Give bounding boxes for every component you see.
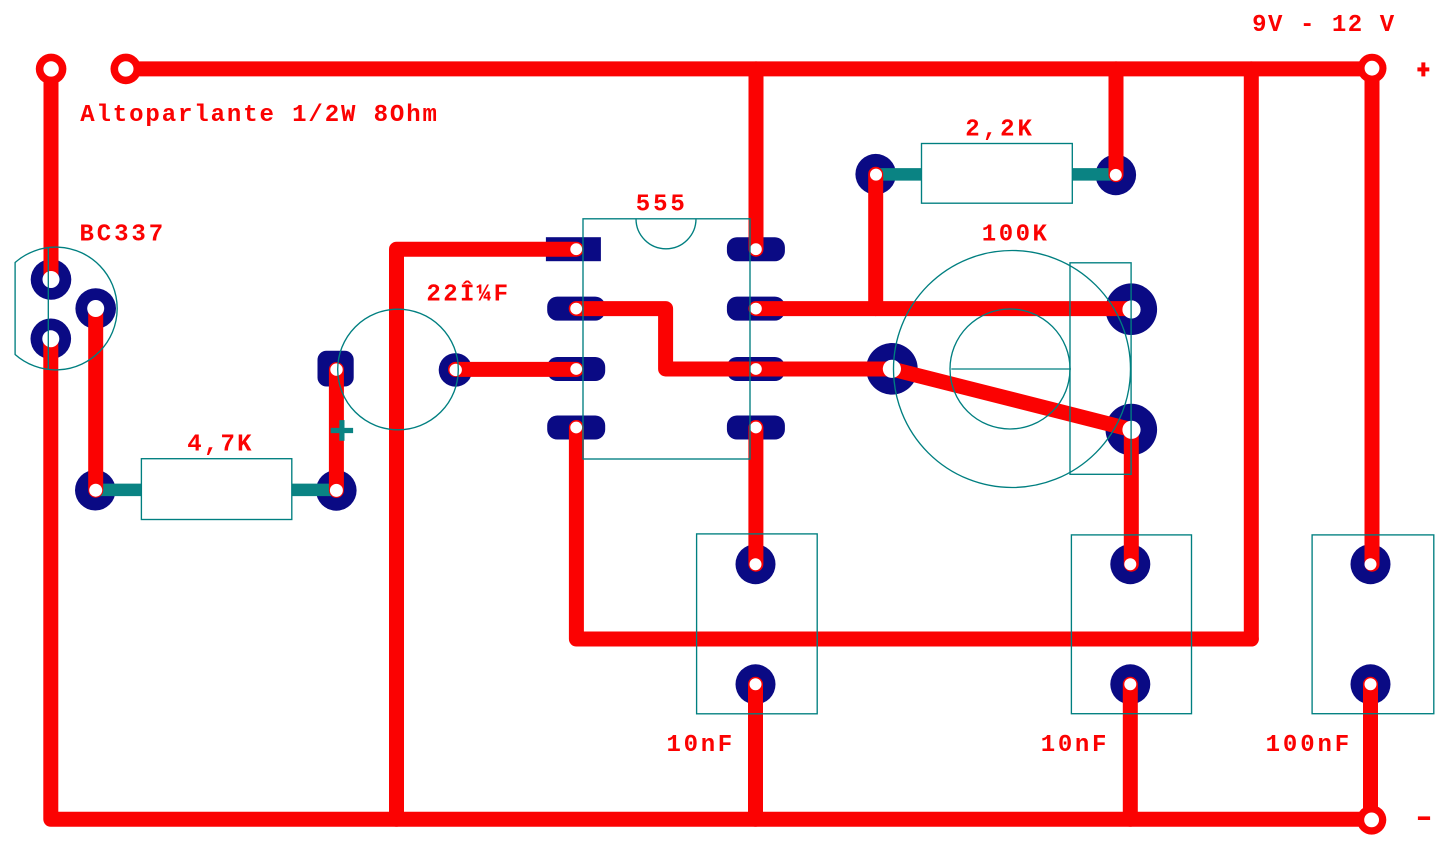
svg-text:10nF: 10nF	[667, 732, 735, 759]
svg-text:22Î¼F: 22Î¼F	[426, 281, 510, 309]
svg-text:10nF: 10nF	[1041, 732, 1109, 759]
svg-text:9V - 12 V: 9V - 12 V	[1252, 12, 1396, 39]
svg-text:4,7K: 4,7K	[187, 432, 253, 459]
svg-text:100nF: 100nF	[1266, 732, 1353, 759]
svg-text:100K: 100K	[982, 222, 1050, 249]
svg-text:BC337: BC337	[80, 222, 167, 249]
svg-text:555: 555	[636, 192, 688, 219]
svg-text:Altoparlante 1/2W 8Ohm: Altoparlante 1/2W 8Ohm	[80, 102, 439, 129]
svg-text:2,2K: 2,2K	[965, 117, 1035, 144]
